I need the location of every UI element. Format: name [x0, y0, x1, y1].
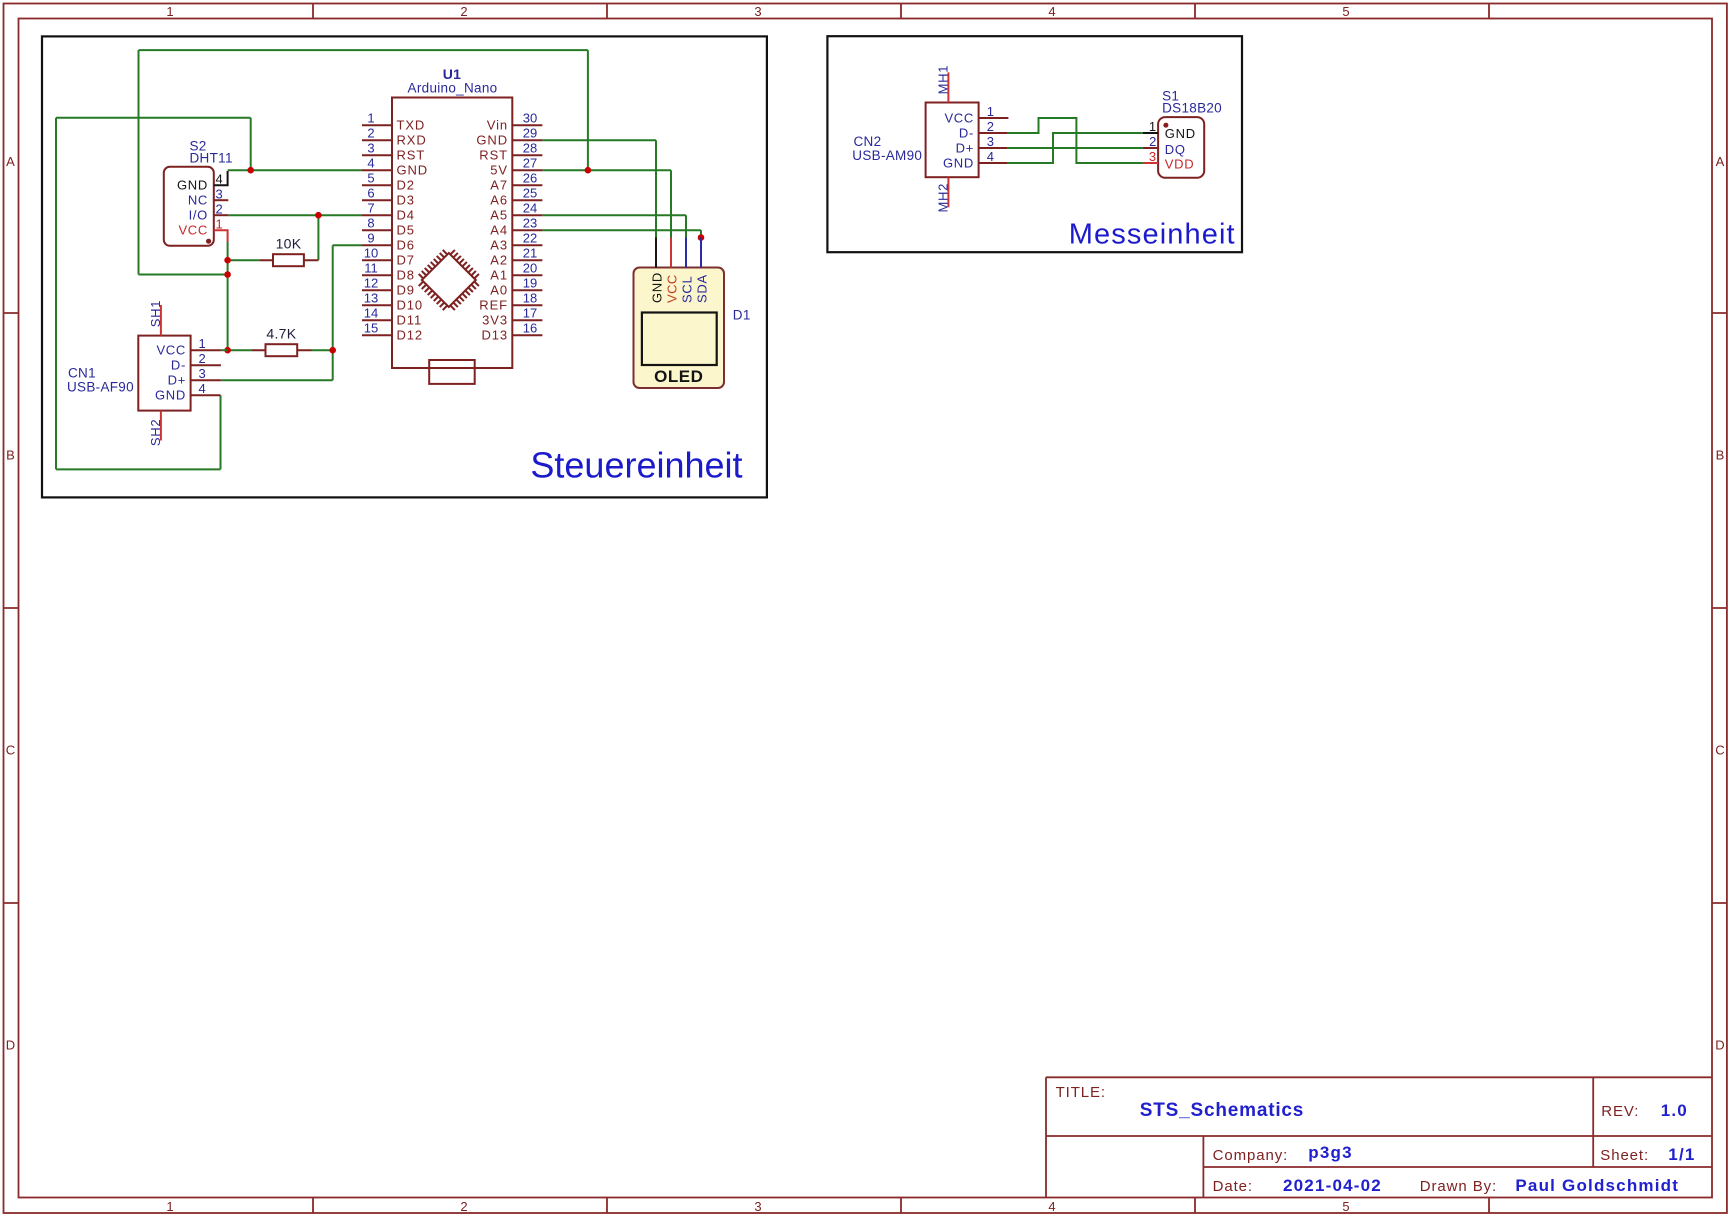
- svg-text:A6: A6: [490, 193, 508, 208]
- svg-text:GND: GND: [650, 272, 665, 303]
- U1 pin 19 A0 stub: [512, 289, 542, 291]
- wire: 5V top net right vertical down to 5V pin: [587, 50, 589, 170]
- svg-text:A7: A7: [490, 178, 508, 193]
- U1 pin 13 D10 stub: [362, 304, 392, 306]
- frame row ticks left: [4, 313, 19, 903]
- svg-text:19: 19: [523, 276, 537, 291]
- svg-text:28: 28: [523, 141, 537, 156]
- svg-text:CN1: CN1: [68, 366, 96, 381]
- U1 pin 5 D2 stub: [362, 184, 392, 186]
- svg-text:D7: D7: [397, 253, 415, 268]
- Steuereinheit sheet block frame: [42, 36, 767, 497]
- U1 pin 2 RXD stub: [362, 139, 392, 141]
- CN1 pin 1 wire stump to VCC column: [221, 349, 228, 351]
- svg-text:GND: GND: [1165, 126, 1196, 141]
- U1 pin 7 D4 stub: [362, 214, 392, 216]
- svg-text:MH1: MH1: [935, 65, 950, 95]
- U1 pin 29 GND stub: [512, 139, 542, 141]
- wire: GND net top horizontal: [56, 117, 251, 119]
- S2 pin-1 marker dot: [206, 239, 211, 244]
- svg-text:GND: GND: [943, 156, 974, 171]
- wire: CN2 D+ to S1 DQ: [1008, 147, 1143, 149]
- svg-text:10: 10: [364, 246, 378, 261]
- svg-text:VCC: VCC: [178, 223, 208, 238]
- svg-text:3: 3: [1149, 149, 1157, 164]
- wire: GND wire DHT11 to Arduino pin4: [228, 169, 362, 171]
- svg-text:11: 11: [364, 261, 378, 276]
- U1 pin 22 A3 stub: [512, 244, 542, 246]
- svg-text:2: 2: [987, 119, 994, 134]
- S1 pin 1 GND stub: [1143, 132, 1158, 134]
- svg-text:27: 27: [523, 156, 537, 171]
- sensor S1 DS18B20 body: [1158, 117, 1204, 178]
- wire: D+ wire CN1 pin3: [221, 379, 333, 381]
- wire: GND net left vertical: [55, 118, 57, 470]
- svg-text:2: 2: [460, 4, 467, 19]
- svg-text:1/1: 1/1: [1668, 1145, 1695, 1164]
- S2 pin 4 GND stub: [214, 171, 228, 185]
- sensor S2 DHT11 body: [164, 167, 214, 246]
- CN2 pin MH1 stub: [947, 72, 949, 102]
- svg-text:TXD: TXD: [397, 118, 426, 133]
- junction: 5V wire with top net: [585, 167, 592, 174]
- svg-text:18: 18: [523, 291, 537, 306]
- svg-text:D13: D13: [481, 328, 508, 343]
- svg-text:2021-04-02: 2021-04-02: [1283, 1176, 1382, 1195]
- S2 pin 1 VCC stub: [214, 230, 228, 242]
- svg-text:1: 1: [367, 111, 374, 126]
- svg-text:3: 3: [367, 141, 374, 156]
- D1 pin SCL stub: [685, 238, 687, 268]
- wire: CN2 D- to S1 VDD (jog): [1008, 118, 1143, 163]
- wire: 5V top net left vertical: [138, 50, 140, 274]
- svg-text:D+: D+: [168, 373, 186, 388]
- svg-text:1: 1: [166, 4, 173, 19]
- frame column ticks top: [313, 4, 1489, 19]
- svg-text:3: 3: [199, 366, 206, 381]
- svg-text:Sheet:: Sheet:: [1600, 1147, 1649, 1164]
- title block outline: [1046, 1077, 1712, 1197]
- U1 pin 25 A6 stub: [512, 199, 542, 201]
- svg-text:9: 9: [367, 231, 374, 246]
- U1 pin 27 5V stub: [512, 169, 542, 171]
- S1 pin 3 VDD stub: [1143, 162, 1158, 164]
- U1 USB connector rectangle: [429, 360, 475, 384]
- CN1 pin 1 VCC stub: [191, 349, 221, 351]
- D1 pin VCC stub: [670, 238, 672, 268]
- wire: GND net bottom horizontal: [56, 468, 221, 470]
- svg-text:SCL: SCL: [680, 276, 695, 303]
- svg-text:13: 13: [364, 291, 378, 306]
- svg-text:A: A: [6, 154, 15, 169]
- svg-text:TITLE:: TITLE:: [1056, 1084, 1106, 1101]
- U1 pin 14 D11 stub: [362, 319, 392, 321]
- U1 chip diamond symbol: [419, 250, 479, 310]
- svg-text:3: 3: [754, 1199, 761, 1214]
- CN2 pin 2 D- stub: [979, 132, 1008, 134]
- svg-text:C: C: [1715, 743, 1724, 758]
- svg-text:SH1: SH1: [148, 300, 163, 327]
- CN2 pin MH2 stub: [947, 177, 949, 207]
- junction: I/O wire with 10K: [315, 212, 322, 219]
- svg-text:D5: D5: [397, 223, 415, 238]
- CN2 pin 4 GND stub: [979, 162, 1008, 164]
- svg-text:D: D: [6, 1038, 15, 1053]
- junction: A4 wire at OLED SDA pin: [698, 234, 705, 241]
- svg-text:5: 5: [367, 171, 374, 186]
- svg-text:NC: NC: [188, 193, 208, 208]
- wire: 10K right lead up to I/O wire: [317, 215, 319, 260]
- svg-text:A3: A3: [490, 238, 508, 253]
- svg-text:A: A: [1716, 154, 1725, 169]
- svg-text:5: 5: [1342, 1199, 1349, 1214]
- svg-text:1: 1: [199, 336, 206, 351]
- svg-text:A0: A0: [490, 283, 508, 298]
- D1 screen inner rectangle: [642, 313, 717, 366]
- svg-text:3: 3: [987, 134, 994, 149]
- svg-text:2: 2: [199, 351, 206, 366]
- svg-text:4: 4: [1048, 1199, 1055, 1214]
- U1 pin 4 GND stub: [362, 169, 392, 171]
- svg-text:VCC: VCC: [665, 274, 680, 303]
- IC U1 Arduino_Nano body: [392, 98, 512, 369]
- svg-text:8: 8: [367, 216, 374, 231]
- svg-text:24: 24: [523, 201, 537, 216]
- svg-text:Paul Goldschmidt: Paul Goldschmidt: [1515, 1176, 1679, 1195]
- wire: GND net from CN1 pin4 down: [220, 395, 222, 469]
- svg-text:2: 2: [367, 126, 374, 141]
- CN1 pin SH2 stub: [160, 411, 162, 441]
- wire: 5V wire Arduino to OLED VCC: [542, 170, 671, 237]
- svg-text:D3: D3: [397, 193, 415, 208]
- svg-text:A4: A4: [490, 223, 508, 238]
- svg-text:D: D: [1715, 1038, 1724, 1053]
- svg-text:B: B: [6, 448, 15, 463]
- svg-text:D11: D11: [397, 313, 423, 328]
- svg-text:4: 4: [216, 172, 224, 187]
- svg-text:B: B: [1716, 448, 1725, 463]
- wire: CN2 GND to S1 GND: [1008, 133, 1143, 163]
- svg-text:I/O: I/O: [189, 208, 208, 223]
- frame column labels top: [166, 4, 1349, 19]
- svg-text:Vin: Vin: [487, 118, 508, 133]
- CN2 pin 3 D+ stub: [979, 147, 1008, 149]
- wire: 10K left lead to VCC column: [228, 259, 260, 261]
- junction: VCC column with 5V loop: [224, 271, 231, 278]
- svg-text:D9: D9: [397, 283, 415, 298]
- svg-text:26: 26: [523, 171, 537, 186]
- wire: VCC column vertical: [227, 242, 229, 350]
- U1 pin 1 TXD stub: [362, 124, 392, 126]
- svg-text:14: 14: [364, 306, 378, 321]
- svg-text:7: 7: [367, 201, 374, 216]
- svg-text:DS18B20: DS18B20: [1162, 101, 1222, 116]
- svg-text:2: 2: [1149, 134, 1156, 149]
- svg-text:D-: D-: [171, 358, 186, 373]
- svg-text:D+: D+: [956, 141, 974, 156]
- svg-text:1: 1: [166, 1199, 173, 1214]
- wire: 5V top net horizontal: [139, 49, 588, 51]
- svg-text:GND: GND: [397, 163, 429, 178]
- Messeinheit sheet block frame: [827, 36, 1242, 252]
- svg-text:1: 1: [1149, 119, 1157, 134]
- CN1 pin 2 D- stub: [191, 364, 221, 366]
- U1 pin 17 3V3 stub: [512, 319, 542, 321]
- wire: 5V left loop horizontal to VCC column: [139, 274, 228, 276]
- svg-text:22: 22: [523, 231, 537, 246]
- svg-text:USB-AF90: USB-AF90: [67, 379, 134, 394]
- svg-text:2: 2: [216, 202, 223, 217]
- CN1 pin SH1 stub: [160, 305, 162, 336]
- svg-text:Date:: Date:: [1213, 1178, 1253, 1195]
- wire: D6 wire Arduino pin9 to 4.7K column: [333, 244, 362, 246]
- CN2 pin 1 VCC stub: [979, 117, 1009, 119]
- frame column ticks bottom: [313, 1198, 1489, 1213]
- wire: GND29 wire Arduino to OLED: [542, 140, 656, 237]
- svg-text:30: 30: [523, 111, 537, 126]
- svg-text:20: 20: [523, 261, 537, 276]
- svg-text:Messeinheit: Messeinheit: [1069, 218, 1236, 250]
- S2 pin 2 I/O stub: [214, 214, 229, 216]
- svg-text:C: C: [6, 743, 15, 758]
- D1 pin SDA stub: [700, 238, 702, 268]
- svg-text:GND: GND: [155, 388, 186, 403]
- svg-text:MH2: MH2: [935, 183, 950, 213]
- svg-text:RST: RST: [397, 148, 426, 163]
- svg-text:5: 5: [1342, 4, 1349, 19]
- wire: A4 wire Arduino to OLED SDA: [542, 230, 701, 237]
- svg-text:A2: A2: [490, 253, 508, 268]
- junction: 4.7K right with D6/D+ column: [329, 347, 336, 354]
- S1 pin-1 marker dot: [1163, 123, 1168, 128]
- U1 pin 23 A4 stub: [512, 229, 542, 231]
- CN1 pin 4 GND stub: [191, 394, 221, 396]
- svg-text:12: 12: [364, 276, 378, 291]
- frame row ticks right: [1712, 313, 1727, 903]
- svg-text:Steuereinheit: Steuereinheit: [530, 444, 742, 485]
- U1 pin 8 D5 stub: [362, 229, 392, 231]
- svg-text:4.7K: 4.7K: [266, 326, 296, 342]
- wire: 4.7K column vertical D6 to D+: [332, 245, 334, 380]
- svg-text:GND: GND: [476, 133, 508, 148]
- svg-text:DQ: DQ: [1165, 142, 1186, 157]
- svg-text:RST: RST: [479, 148, 508, 163]
- svg-text:2: 2: [460, 1199, 467, 1214]
- svg-text:USB-AM90: USB-AM90: [852, 148, 922, 163]
- U1 pin 18 REF stub: [512, 304, 542, 306]
- svg-text:CN2: CN2: [854, 134, 882, 149]
- wire: GND net vertical join to GND wire: [250, 118, 252, 170]
- svg-text:SDA: SDA: [695, 274, 710, 303]
- S2 pin 3 NC stub: [214, 199, 229, 201]
- svg-text:D1: D1: [733, 308, 751, 323]
- svg-text:p3g3: p3g3: [1308, 1143, 1352, 1162]
- svg-text:4: 4: [199, 381, 206, 396]
- junction: GND wire with left loop: [247, 167, 254, 174]
- svg-text:Company:: Company:: [1213, 1147, 1289, 1164]
- svg-text:10K: 10K: [276, 236, 302, 252]
- svg-text:D8: D8: [397, 268, 415, 283]
- svg-text:D6: D6: [397, 238, 415, 253]
- svg-text:4: 4: [367, 156, 374, 171]
- svg-text:29: 29: [523, 126, 537, 141]
- connector CN2 USB-AM90 body: [926, 103, 979, 178]
- svg-text:DHT11: DHT11: [190, 151, 233, 166]
- svg-text:4: 4: [987, 149, 994, 164]
- U1 pin 11 D8 stub: [362, 274, 392, 276]
- svg-text:3V3: 3V3: [482, 313, 508, 328]
- svg-text:15: 15: [364, 321, 378, 336]
- svg-text:VCC: VCC: [944, 111, 974, 126]
- svg-text:D12: D12: [397, 328, 424, 343]
- svg-text:SH2: SH2: [148, 419, 163, 446]
- U1 pin 26 A7 stub: [512, 184, 542, 186]
- wire: A5 wire Arduino to OLED SCL: [542, 215, 686, 237]
- U1 pin 15 D12 stub: [362, 334, 392, 336]
- svg-text:D10: D10: [397, 298, 424, 313]
- svg-text:REF: REF: [479, 298, 508, 313]
- svg-text:REV:: REV:: [1601, 1103, 1639, 1120]
- svg-text:GND: GND: [177, 178, 208, 193]
- svg-text:OLED: OLED: [654, 367, 703, 386]
- junction: VCC column with 4.7K left and CN1 VCC: [224, 347, 231, 354]
- U1 pin 30 Vin stub: [512, 124, 542, 126]
- svg-text:1.0: 1.0: [1661, 1101, 1688, 1120]
- S1 pin 2 DQ stub: [1143, 147, 1158, 149]
- svg-text:5V: 5V: [490, 163, 508, 178]
- wire: 4.7K left connection: [228, 349, 252, 351]
- U1 pin 9 D6 stub: [362, 244, 392, 246]
- svg-text:21: 21: [523, 246, 537, 261]
- frame row labels left: [6, 154, 15, 1053]
- junction: VCC column with 10K left: [224, 257, 231, 264]
- U1 pin 28 RST stub: [512, 154, 542, 156]
- wire: I/O wire DHT11 to Arduino D4: [228, 214, 362, 216]
- svg-text:A1: A1: [490, 268, 508, 283]
- resistor R 10K body: [259, 254, 318, 266]
- U1 pin 20 A1 stub: [512, 274, 542, 276]
- svg-text:6: 6: [367, 186, 374, 201]
- U1 pin 10 D7 stub: [362, 259, 392, 261]
- svg-text:Arduino_Nano: Arduino_Nano: [408, 81, 498, 96]
- frame row labels right: [1715, 154, 1724, 1053]
- resistor R 4.7K body: [251, 344, 311, 356]
- svg-text:RXD: RXD: [397, 133, 427, 148]
- svg-text:16: 16: [523, 321, 537, 336]
- svg-text:VCC: VCC: [156, 343, 186, 358]
- svg-text:STS_Schematics: STS_Schematics: [1140, 1100, 1304, 1121]
- U1 pin 6 D3 stub: [362, 199, 392, 201]
- connector CN1 USB-AF90 body: [138, 336, 190, 411]
- display D1 OLED body: [634, 268, 725, 389]
- svg-text:4: 4: [1048, 4, 1055, 19]
- U1 pin 21 A2 stub: [512, 259, 542, 261]
- svg-text:D-: D-: [959, 126, 974, 141]
- svg-text:A5: A5: [490, 208, 508, 223]
- svg-text:17: 17: [523, 306, 537, 321]
- CN1 pin 3 D+ stub: [191, 379, 221, 381]
- svg-text:Drawn By:: Drawn By:: [1420, 1178, 1497, 1195]
- U1 pin 12 D9 stub: [362, 289, 392, 291]
- svg-text:25: 25: [523, 186, 537, 201]
- svg-text:23: 23: [523, 216, 537, 231]
- U1 pin 16 D13 stub: [512, 334, 542, 336]
- svg-text:1: 1: [987, 104, 994, 119]
- U1 pin 24 A5 stub: [512, 214, 542, 216]
- svg-text:D4: D4: [397, 208, 415, 223]
- D1 pin GND stub: [655, 238, 657, 268]
- svg-text:VDD: VDD: [1165, 157, 1195, 172]
- svg-text:3: 3: [216, 187, 223, 202]
- svg-text:D2: D2: [397, 178, 415, 193]
- U1 pin 3 RST stub: [362, 154, 392, 156]
- svg-text:1: 1: [216, 217, 224, 232]
- wire: 4.7K right connection: [312, 349, 333, 351]
- frame column labels bottom: [166, 1199, 1349, 1214]
- svg-text:3: 3: [754, 4, 761, 19]
